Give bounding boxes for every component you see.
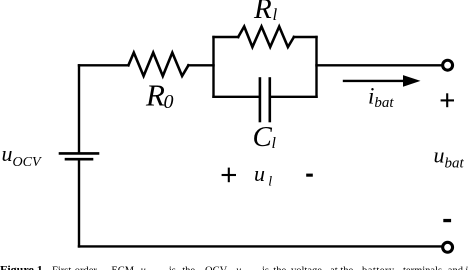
wire R0 to RC box xyxy=(188,64,213,66)
caption Figure 1 xyxy=(0,263,474,270)
svg-text:ubat: ubat xyxy=(434,143,465,172)
label R1 xyxy=(253,0,278,25)
label R0 xyxy=(145,78,174,113)
wire box top edge right xyxy=(294,36,317,38)
resistor R1 xyxy=(238,27,294,48)
svg-text:l: l xyxy=(273,5,278,24)
svg-text:voltage: voltage xyxy=(291,266,322,270)
svg-text:R: R xyxy=(145,78,165,113)
capacitor C1 left plate xyxy=(259,79,262,122)
svg-text:and: and xyxy=(448,266,464,270)
svg-text:l: l xyxy=(272,135,277,152)
svg-text:Figure 1.: Figure 1. xyxy=(0,263,46,270)
arrow i_bat head xyxy=(403,75,421,87)
svg-text:at: at xyxy=(330,266,338,270)
svg-text:u: u xyxy=(254,161,265,186)
svg-text:the: the xyxy=(182,266,195,270)
capacitor C1 right plate xyxy=(268,79,271,122)
svg-text:l: l xyxy=(268,175,272,190)
wire box top edge left xyxy=(214,36,239,38)
svg-text:First-order: First-order xyxy=(52,266,97,270)
wire RC box right edge xyxy=(315,37,317,97)
svg-text:R: R xyxy=(253,0,272,25)
svg-text:uOCV: uOCV xyxy=(2,141,42,170)
svg-text:is: is xyxy=(169,266,176,270)
wire C1 to box bottom right xyxy=(271,96,317,98)
svg-text:is: is xyxy=(262,266,269,270)
svg-text:ibat: ibat xyxy=(368,84,394,112)
battery u_OCV long plate xyxy=(60,152,98,155)
battery u_OCV short plate xyxy=(66,158,92,161)
terminal negative (bottom right circle) xyxy=(443,242,453,252)
wire box to positive terminal xyxy=(317,64,442,66)
label plus (node u1 left) xyxy=(222,168,236,183)
wire bottom horizontal xyxy=(79,245,442,247)
svg-text:OCV,: OCV, xyxy=(205,266,228,270)
svg-text:ECM.: ECM. xyxy=(111,266,136,270)
label C1 xyxy=(253,121,277,153)
svg-text:terminals: terminals xyxy=(403,266,442,270)
wire left vertical upper xyxy=(78,65,80,152)
svg-text:the: the xyxy=(273,266,286,270)
wire RC box left edge xyxy=(212,37,214,97)
terminal positive (top right circle) xyxy=(443,60,453,70)
label minus (terminal) xyxy=(443,219,451,222)
wire box bottom edge left to C1 xyxy=(214,96,259,98)
svg-text:battery: battery xyxy=(362,266,395,270)
wire left vertical lower xyxy=(78,160,80,246)
resistor R0 xyxy=(128,53,188,76)
arrow i_bat shaft xyxy=(343,80,404,82)
svg-text:u: u xyxy=(236,266,241,270)
label u1 xyxy=(254,161,272,190)
label plus (terminal) xyxy=(441,93,454,107)
svg-text:the: the xyxy=(340,266,353,270)
svg-text:u: u xyxy=(141,266,146,270)
wire top-left horizontal to R0 xyxy=(79,64,128,66)
label minus (node u1 right) xyxy=(306,174,313,177)
svg-text:C: C xyxy=(253,121,273,153)
svg-text:0: 0 xyxy=(164,91,174,113)
